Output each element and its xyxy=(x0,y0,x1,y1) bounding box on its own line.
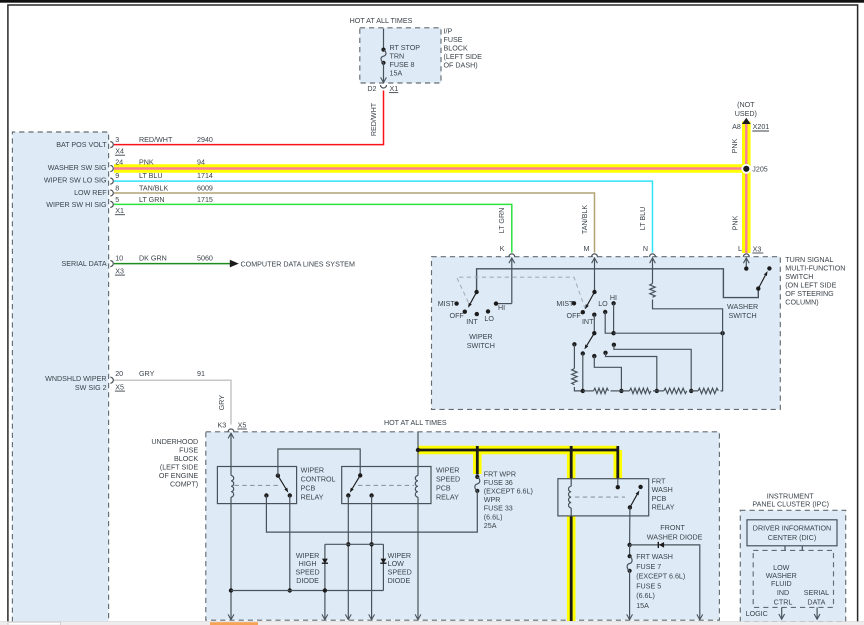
junction diode feed c xyxy=(369,542,373,546)
junction relay1 NO end xyxy=(288,588,292,592)
wire segments around R-c xyxy=(657,390,691,392)
connector pin bump BAT POS VOLT xyxy=(110,142,113,148)
svg-text:LOGIC: LOGIC xyxy=(746,610,768,618)
washer switch input contact xyxy=(744,266,748,270)
relay 2 actuator dashed line xyxy=(358,484,414,486)
junction coil1/diode return xyxy=(229,588,233,592)
wire HI2 down to junction xyxy=(613,303,615,333)
svg-text:RED/WHT: RED/WHT xyxy=(370,102,378,136)
svg-text:1714: 1714 xyxy=(197,172,213,180)
svg-text:J205: J205 xyxy=(752,166,768,174)
wire PNK highlighted yellow vertical to X201 and washer switch xyxy=(742,122,751,254)
wiper switch 1 blade xyxy=(470,292,476,304)
wire LT GRN WIPER SW HI SIG xyxy=(114,204,512,252)
svg-text:FUSE: FUSE xyxy=(179,446,198,454)
svg-text:SERIAL DATA: SERIAL DATA xyxy=(61,260,106,268)
svg-text:91: 91 xyxy=(197,370,205,378)
svg-text:OF DASH): OF DASH) xyxy=(444,62,478,70)
svg-text:DK GRN: DK GRN xyxy=(139,254,167,262)
svg-text:CONTROL: CONTROL xyxy=(301,475,336,483)
resistor R-a xyxy=(594,388,609,393)
resistor R-b xyxy=(630,388,651,393)
svg-text:INSTRUMENT: INSTRUMENT xyxy=(767,492,814,500)
delay switch blade xyxy=(587,333,594,345)
wire PNK thick power feed horizontal in fuse block xyxy=(418,446,618,455)
arrow down exit coil1 xyxy=(228,614,234,619)
svg-text:D2: D2 xyxy=(367,85,376,93)
svg-text:(EXCEPT 6.6L): (EXCEPT 6.6L) xyxy=(484,488,533,496)
svg-text:INT: INT xyxy=(582,318,594,326)
svg-text:PANEL CLUSTER (IPC): PANEL CLUSTER (IPC) xyxy=(752,501,829,509)
svg-text:CTRL: CTRL xyxy=(774,598,793,606)
power feed stub from box top xyxy=(417,432,419,467)
junction diode feed b xyxy=(346,542,350,546)
resistor under connector N xyxy=(650,284,655,298)
connector pin bump LOW REF xyxy=(110,190,113,196)
junction bottom line d xyxy=(655,389,659,393)
svg-text:FRT: FRT xyxy=(652,478,666,486)
wire below FRT WASH relay to bottom (yellow) xyxy=(567,516,576,621)
diode FRONT WASHER DIODE xyxy=(657,542,659,548)
wiper switch 2 HI contact xyxy=(611,301,615,305)
relay 2 common contact xyxy=(358,473,362,477)
svg-text:SPEED: SPEED xyxy=(295,569,319,577)
svg-text:HIGH: HIGH xyxy=(299,560,317,568)
svg-text:RELAY: RELAY xyxy=(436,494,459,502)
svg-text:FUSE 5: FUSE 5 xyxy=(636,582,661,590)
wire relay2 coil down to bottom xyxy=(417,504,419,620)
svg-text:PCB: PCB xyxy=(652,495,667,503)
svg-text:FLUID: FLUID xyxy=(771,580,792,588)
relay WIPER SPEED PCB RELAY box xyxy=(342,467,431,504)
wire segments around R-d and up to junction xyxy=(691,333,722,391)
black core of thick power feed xyxy=(418,446,618,621)
svg-text:(NOT: (NOT xyxy=(737,101,755,109)
svg-text:X201: X201 xyxy=(753,123,770,131)
svg-text:LO: LO xyxy=(598,300,608,308)
wire to FRT WASH fuse xyxy=(629,545,631,556)
wire relay2 NO contact down to bottom xyxy=(347,496,349,620)
DIC output stubs xyxy=(785,546,802,551)
wiper switch 1 HI contact xyxy=(494,301,498,305)
svg-text:GRY: GRY xyxy=(218,395,226,411)
delay contact b xyxy=(581,351,585,355)
wire branch to FRT WASH relay coil (yellow) xyxy=(567,450,576,479)
serial data arrow xyxy=(816,607,818,619)
wire contact e step to bottom line xyxy=(614,345,691,391)
svg-text:WIPER SW HI SIG: WIPER SW HI SIG xyxy=(46,201,107,209)
svg-text:SPEED: SPEED xyxy=(388,569,412,577)
wiper switch 2 pivot xyxy=(592,290,596,294)
svg-text:FRT WASH: FRT WASH xyxy=(636,553,673,561)
connector X201 arrow (not used) xyxy=(742,118,751,124)
svg-text:LT BLU: LT BLU xyxy=(139,172,163,180)
svg-text:WNDSHLD WIPER: WNDSHLD WIPER xyxy=(45,375,107,383)
front washer diode wire xyxy=(630,545,700,620)
relay 1 actuator dashed line xyxy=(235,484,280,486)
svg-text:HI: HI xyxy=(610,294,617,302)
junction power feed xyxy=(416,448,420,452)
svg-text:DATA: DATA xyxy=(807,598,825,606)
delay contact e xyxy=(612,343,616,347)
frt wash relay feed wire xyxy=(617,479,619,488)
svg-text:SW SIG 2: SW SIG 2 xyxy=(75,384,107,392)
svg-text:20: 20 xyxy=(115,370,123,378)
connector M bump and arrow xyxy=(592,254,598,257)
orange highlighted wire at bottom edge xyxy=(210,622,258,625)
svg-text:24: 24 xyxy=(115,159,123,167)
svg-text:1715: 1715 xyxy=(197,196,213,204)
wire contact c step to bottom line xyxy=(594,356,621,391)
svg-text:X1: X1 xyxy=(115,207,124,215)
svg-text:DRIVER INFORMATION: DRIVER INFORMATION xyxy=(753,524,831,532)
washer switch pivot xyxy=(756,286,760,290)
svg-text:25A: 25A xyxy=(484,522,497,530)
svg-text:PNK: PNK xyxy=(139,159,154,167)
resistor chain bottom line segment 1 xyxy=(583,390,594,392)
svg-text:(ON LEFT SIDE: (ON LEFT SIDE xyxy=(785,282,836,290)
svg-text:(6.6L): (6.6L) xyxy=(484,513,503,521)
svg-text:94: 94 xyxy=(197,159,205,167)
relay FRT WASH PCB RELAY box xyxy=(558,479,649,516)
svg-text:HI: HI xyxy=(498,304,505,312)
turn signal multi-function switch box xyxy=(432,257,781,410)
wiper high speed diode branch wire xyxy=(325,544,384,619)
low washer fluid ind ctrl arrow xyxy=(781,607,783,619)
svg-text:HOT AT ALL TIMES: HOT AT ALL TIMES xyxy=(384,419,447,427)
svg-text:SPEED: SPEED xyxy=(436,475,460,483)
wire into RT STOP TRN fuse xyxy=(383,29,385,50)
wiper switch 1 MIST contact xyxy=(454,301,458,305)
connector box: wiper/washer switch inputs (left dashed box) xyxy=(12,132,108,622)
wire TAN/BLK LOW REF xyxy=(114,193,595,253)
svg-text:5060: 5060 xyxy=(197,254,213,262)
svg-text:OF ENGINE: OF ENGINE xyxy=(159,472,199,480)
wiper switch 2 OFF contact xyxy=(581,310,585,314)
svg-text:I/P: I/P xyxy=(444,28,453,36)
svg-text:X5: X5 xyxy=(115,383,124,391)
arrow down exit high diode xyxy=(322,614,328,619)
relay 1 NO contact xyxy=(288,493,292,497)
wire contact d step to bottom line xyxy=(606,353,657,391)
delay contact a xyxy=(572,342,576,346)
svg-text:WIPER: WIPER xyxy=(296,552,319,560)
svg-text:FUSE 33: FUSE 33 xyxy=(484,505,513,513)
svg-text:GRY: GRY xyxy=(139,370,155,378)
wire relay1 coil down to bottom xyxy=(230,504,232,620)
arrow to computer data lines system xyxy=(230,260,239,268)
arrow down exit washer pump xyxy=(697,614,703,619)
svg-text:6009: 6009 xyxy=(197,184,213,192)
svg-text:LT BLU: LT BLU xyxy=(639,207,647,231)
frt wash relay coil xyxy=(569,486,572,508)
connector bump D2/X1 xyxy=(381,85,387,88)
svg-text:TURN SIGNAL: TURN SIGNAL xyxy=(785,256,833,264)
delay contact d xyxy=(603,351,607,355)
relay 2 coil wire top xyxy=(417,467,419,476)
svg-text:CENTER (DIC): CENTER (DIC) xyxy=(768,534,816,542)
arrow down exit b xyxy=(345,614,351,619)
wire DK GRN SERIAL DATA xyxy=(114,263,232,265)
wire from fuse to connector D2/X1 xyxy=(383,63,385,83)
connector K3/X5 bump and arrow xyxy=(228,429,234,432)
svg-text:WASHER: WASHER xyxy=(766,572,797,580)
wire R-a to junction c xyxy=(611,390,622,392)
wire relay1 common up and over to relay2 xyxy=(278,449,360,476)
wire contact b down xyxy=(582,354,584,391)
svg-text:WASH: WASH xyxy=(652,486,673,494)
resistor R-d xyxy=(698,388,718,393)
frt wash relay NO contact xyxy=(638,485,642,489)
junction bottom line c xyxy=(619,389,623,393)
junction J205 on PNK wire xyxy=(741,164,751,174)
wiper switch 1 LO contact xyxy=(486,309,490,313)
svg-text:WIPER: WIPER xyxy=(388,552,411,560)
svg-text:X3: X3 xyxy=(115,267,124,275)
svg-text:X1: X1 xyxy=(390,85,399,93)
diode return line xyxy=(231,590,383,592)
svg-text:K3: K3 xyxy=(217,422,226,430)
svg-text:FUSE 8: FUSE 8 xyxy=(390,61,415,69)
wire frt wash relay pivot down xyxy=(629,507,631,545)
fuse FRT WPR FUSE 36 / WPR FUSE 33 25A xyxy=(475,475,479,479)
wire fuse to relay1 NC contact xyxy=(266,491,477,532)
svg-text:MULTI-FUNCTION: MULTI-FUNCTION xyxy=(785,265,845,273)
frt wash relay coil wire bottom xyxy=(570,508,572,516)
connector pin bump WIPER SW HI SIG xyxy=(110,201,113,207)
svg-text:LOW: LOW xyxy=(773,564,790,572)
junction at resistor network right xyxy=(720,331,724,335)
svg-text:OF STEERING: OF STEERING xyxy=(785,290,834,298)
arrow down exit coil2 xyxy=(415,614,421,619)
scrollbar thumb xyxy=(8,622,61,625)
relay 2 coil xyxy=(415,476,418,498)
relay WIPER CONTROL PCB RELAY box xyxy=(217,467,296,504)
svg-text:X3: X3 xyxy=(753,245,762,253)
svg-text:WASHER SW SIG: WASHER SW SIG xyxy=(48,164,107,172)
svg-text:COMPUTER DATA LINES SYSTEM: COMPUTER DATA LINES SYSTEM xyxy=(241,260,355,268)
svg-text:MIST: MIST xyxy=(556,300,574,308)
wiper switch 2 blade xyxy=(587,292,594,305)
arrow down exit c xyxy=(369,614,375,619)
frt wash relay pivot xyxy=(628,505,632,509)
svg-text:TAN/BLK: TAN/BLK xyxy=(581,205,589,234)
svg-text:X4: X4 xyxy=(115,148,124,156)
svg-text:LT GRN: LT GRN xyxy=(498,208,506,234)
wire PNK pink core horizontal xyxy=(114,167,746,169)
svg-text:USED): USED) xyxy=(735,110,757,118)
junction high diode return xyxy=(323,588,327,592)
frt wash relay coil wire top xyxy=(570,479,572,487)
relay 1 common contact xyxy=(276,473,280,477)
svg-text:OFF: OFF xyxy=(567,312,582,320)
svg-text:PNK: PNK xyxy=(731,138,739,153)
wire segments around R-b xyxy=(621,390,656,392)
top black frame bar xyxy=(0,0,864,3)
relay 1 blade xyxy=(278,476,286,489)
svg-text:RELAY: RELAY xyxy=(301,494,324,502)
underhood fuse block box xyxy=(206,432,720,620)
svg-text:BAT POS VOLT: BAT POS VOLT xyxy=(56,141,107,149)
svg-text:FRONT: FRONT xyxy=(660,524,685,532)
wire RED/WHT from I/P fuse to BAT POS VOLT xyxy=(114,91,384,145)
wire INT2 to delay switch pivot xyxy=(593,315,595,334)
connector N bump and arrow xyxy=(650,254,656,257)
svg-text:(6.6L): (6.6L) xyxy=(636,592,655,600)
fuse RT STOP TRN FUSE 8 15A xyxy=(381,48,385,52)
svg-text:WASHER: WASHER xyxy=(727,303,758,311)
bottom scrollbar track xyxy=(0,622,864,625)
frt wash relay actuator dashed line xyxy=(575,496,625,498)
washer switch blade xyxy=(758,275,765,288)
resistor R-c xyxy=(664,388,687,393)
junction washer diode node xyxy=(627,543,631,547)
DIC logic inner dashed box xyxy=(753,550,833,607)
svg-text:SWITCH: SWITCH xyxy=(467,342,495,350)
svg-text:BLOCK: BLOCK xyxy=(174,455,198,463)
frt wash relay feed contact xyxy=(616,485,620,489)
svg-text:M: M xyxy=(584,245,590,253)
svg-text:LOW: LOW xyxy=(388,560,405,568)
relay 2 NC contact xyxy=(369,493,373,497)
svg-text:2940: 2940 xyxy=(197,136,213,144)
relay 1 coil xyxy=(231,476,234,498)
svg-text:SWITCH: SWITCH xyxy=(729,312,757,320)
svg-text:3: 3 xyxy=(115,136,119,144)
svg-text:FUSE: FUSE xyxy=(444,36,463,44)
wiper switch 2 INT contact xyxy=(592,313,596,317)
wire relay2 NC contact down to bottom xyxy=(371,496,373,620)
relay 1 coil wire bottom xyxy=(230,497,232,504)
connector L bump and arrow xyxy=(743,254,749,257)
delay contact c xyxy=(592,354,596,358)
svg-text:FRT WPR: FRT WPR xyxy=(484,470,516,478)
svg-text:PCB: PCB xyxy=(436,485,451,493)
relay 1 coil wire top xyxy=(230,467,232,476)
diode WIPER LOW SPEED DIODE xyxy=(380,562,386,564)
svg-text:PCB: PCB xyxy=(301,485,316,493)
mechanical linkage dashed line xyxy=(457,277,586,310)
svg-text:COLUMN): COLUMN) xyxy=(785,299,818,307)
wiper switch 2 LO contact xyxy=(603,310,607,314)
delay switch pivot xyxy=(592,331,596,335)
svg-text:RT STOP: RT STOP xyxy=(390,44,421,52)
wiper switch 1 OFF contact xyxy=(463,310,467,314)
arrow down exit frt wash fuse xyxy=(627,614,633,619)
wire PNK highlighted yellow horizontal WASHER SW SIG xyxy=(114,164,746,173)
wire resistor to bottom line xyxy=(574,387,582,391)
svg-text:COMPT): COMPT) xyxy=(170,480,198,488)
svg-text:RELAY: RELAY xyxy=(652,503,675,511)
connector pin bump SERIAL DATA xyxy=(110,261,113,267)
connector K bump and arrow xyxy=(509,254,515,257)
svg-text:UNDERHOOD: UNDERHOOD xyxy=(151,438,198,446)
svg-text:N: N xyxy=(643,245,648,253)
svg-text:WIPER: WIPER xyxy=(301,466,324,474)
svg-text:15A: 15A xyxy=(636,602,649,610)
svg-text:K: K xyxy=(500,245,505,253)
junction bottom line b xyxy=(581,389,585,393)
svg-text:SERIAL: SERIAL xyxy=(804,589,829,597)
svg-text:FUSE 36: FUSE 36 xyxy=(484,479,513,487)
wiper switch bus wire to pivots xyxy=(477,269,759,298)
junction LO/HI node xyxy=(611,331,615,335)
svg-text:TRN: TRN xyxy=(390,52,405,60)
washer switch upper contact xyxy=(767,266,771,270)
relay 2 NO contact xyxy=(346,493,350,497)
wire branch to FRT WASH relay contact (yellow) xyxy=(613,450,622,479)
wire junction to resistor network node xyxy=(614,332,723,334)
svg-text:A8: A8 xyxy=(732,123,741,131)
svg-text:DIODE: DIODE xyxy=(388,577,411,585)
svg-text:15A: 15A xyxy=(390,69,403,77)
fuse FRT WASH FUSE 7 / FUSE 5 15A xyxy=(628,554,632,558)
diode WIPER HIGH SPEED DIODE xyxy=(322,562,328,564)
svg-text:PNK: PNK xyxy=(731,215,739,230)
wire LT BLU WIPER SW LO SIG xyxy=(114,181,653,253)
connector pin bump WIPER SW LO SIG xyxy=(110,178,113,184)
wire contact a to vertical resistor xyxy=(573,344,575,368)
svg-text:HOT AT ALL TIMES: HOT AT ALL TIMES xyxy=(350,17,413,25)
svg-text:5: 5 xyxy=(115,196,119,204)
svg-text:FUSE 7: FUSE 7 xyxy=(636,563,661,571)
svg-text:OFF: OFF xyxy=(450,312,465,320)
svg-text:DIODE: DIODE xyxy=(296,577,319,585)
svg-text:LOW REF: LOW REF xyxy=(74,189,107,197)
svg-text:WASHER DIODE: WASHER DIODE xyxy=(647,534,703,542)
svg-text:WIPER SW LO SIG: WIPER SW LO SIG xyxy=(44,177,107,185)
wire N resistor to network xyxy=(653,300,723,334)
svg-text:L: L xyxy=(738,245,742,253)
frt wash relay blade xyxy=(630,495,637,508)
diode feed line xyxy=(325,543,384,545)
wiper switch 2 MIST contact xyxy=(572,301,576,305)
wiper switch 1 INT contact xyxy=(475,312,479,316)
svg-text:X5: X5 xyxy=(238,421,247,429)
wiper switch 1 pivot xyxy=(474,290,478,294)
svg-text:(LEFT SIDE: (LEFT SIDE xyxy=(160,463,199,471)
wire PNK pink core vertical xyxy=(745,124,747,254)
svg-text:(EXCEPT 6.6L): (EXCEPT 6.6L) xyxy=(636,573,685,581)
svg-text:8: 8 xyxy=(115,184,119,192)
wire relay1 NO contact down xyxy=(289,496,291,591)
svg-text:WIPER: WIPER xyxy=(436,466,459,474)
svg-text:9: 9 xyxy=(115,172,119,180)
svg-text:IND: IND xyxy=(777,589,789,597)
svg-text:INT: INT xyxy=(466,318,478,326)
connector pin bump WNDSHLD WIPER SW SIG 2 xyxy=(110,377,113,383)
svg-text:BLOCK: BLOCK xyxy=(444,45,468,53)
svg-text:LO: LO xyxy=(484,315,494,323)
svg-text:WPR: WPR xyxy=(484,496,501,504)
svg-text:TAN/BLK: TAN/BLK xyxy=(139,184,168,192)
svg-text:MIST: MIST xyxy=(438,300,456,308)
driver information center (DIC) box xyxy=(747,520,837,546)
svg-text:RED/WHT: RED/WHT xyxy=(139,136,173,144)
svg-text:(LEFT SIDE: (LEFT SIDE xyxy=(444,53,483,61)
wire LO2 elbow to junction xyxy=(605,312,613,333)
wire HI1 contact to connector K xyxy=(496,303,512,305)
relay 2 blade xyxy=(352,475,360,488)
junction bottom line e xyxy=(689,389,693,393)
svg-text:SWITCH: SWITCH xyxy=(785,273,813,281)
svg-text:LT GRN: LT GRN xyxy=(139,196,165,204)
wire GRY WNDSHLD WIPER SW SIG 2 xyxy=(114,380,231,424)
arrow down at I/P fuse block exit xyxy=(381,77,387,82)
resistor vertical in switch xyxy=(572,369,577,385)
relay 2 coil wire bottom xyxy=(417,497,419,504)
relay 1 NC contact xyxy=(264,493,268,497)
